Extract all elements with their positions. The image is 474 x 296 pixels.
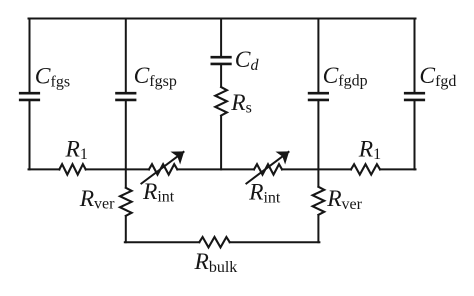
wire middle rail segment 4 [282, 168, 351, 170]
resistor R1 left [59, 164, 85, 174]
wire left rail upper [29, 18, 31, 94]
wire branch D upper [317, 18, 319, 94]
svg-text:Cd: Cd [235, 47, 260, 74]
wire right rail upper [414, 18, 416, 94]
capacitor Cfgdp [308, 92, 329, 95]
wire branch D middle [317, 100, 319, 187]
svg-text:Rbulk: Rbulk [194, 249, 238, 276]
capacitor Cfgs [19, 92, 40, 95]
resistor Rs [215, 87, 227, 115]
svg-text:Cfgsp: Cfgsp [134, 63, 177, 90]
wire middle rail segment 3 [177, 168, 254, 170]
wire bottom rail right [230, 241, 320, 243]
wire right rail lower [414, 100, 416, 170]
svg-text:Rver: Rver [326, 186, 362, 213]
wire branch C upper [220, 18, 222, 58]
svg-text:R1: R1 [358, 136, 381, 163]
arrow of Rint right [246, 152, 288, 184]
rheostat Rint left [149, 164, 177, 174]
capacitor Cfgd [404, 92, 425, 95]
wire branch C mid [220, 64, 222, 87]
svg-text:Cfgd: Cfgd [419, 63, 456, 90]
svg-text:Rint: Rint [142, 179, 175, 206]
wire branch C lower [220, 116, 222, 171]
wire bottom rail left [125, 241, 200, 243]
wire branch B upper [125, 18, 127, 94]
wire middle rail segment 2 [86, 168, 149, 170]
svg-text:Cfgs: Cfgs [35, 64, 70, 91]
resistor Rbulk [199, 237, 229, 247]
wire middle rail segment 1 [29, 168, 60, 170]
resistor Rver right [313, 187, 325, 215]
svg-text:R1: R1 [65, 136, 88, 163]
svg-text:Rver: Rver [79, 186, 115, 213]
resistor R1 right [351, 164, 380, 174]
capacitor Cd [211, 56, 232, 59]
svg-text:Cfgdp: Cfgdp [323, 63, 368, 90]
wire branch B lower [125, 216, 127, 244]
arrow of Rint left [141, 152, 183, 184]
rheostat Rint right [254, 164, 282, 174]
wire left rail lower [29, 100, 31, 170]
svg-text:Rint: Rint [248, 180, 281, 207]
capacitor Cfgsp [115, 92, 136, 95]
wire branch D lower [317, 215, 319, 244]
resistor Rver left [120, 188, 132, 216]
svg-text:Rs: Rs [230, 90, 252, 117]
wire middle rail segment 5 [380, 168, 416, 170]
wire branch B middle [125, 100, 127, 188]
wire top rail [29, 18, 416, 20]
